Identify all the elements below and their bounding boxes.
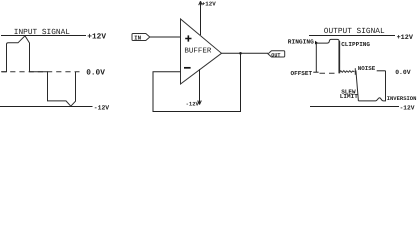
svg-text:-12V: -12V [400, 104, 415, 111]
node feedback junction [239, 52, 242, 55]
svg-text:LIMIT: LIMIT [340, 93, 358, 100]
pin + (non-inverting input) [185, 35, 191, 41]
svg-text:+12V: +12V [397, 34, 414, 42]
node IN port tag [132, 34, 150, 41]
svg-text:-12V: -12V [94, 105, 110, 112]
svg-text:OUTPUT SIGNAL: OUTPUT SIGNAL [324, 27, 385, 36]
svg-text:INVERSION: INVERSION [387, 95, 417, 102]
node OUT port tag [268, 51, 285, 57]
svg-text:OUT: OUT [271, 53, 280, 59]
wire +12V rail (output) [309, 35, 395, 37]
pin - (inverting input) [184, 67, 191, 69]
svg-text:+12V: +12V [202, 0, 216, 7]
wire -12V rail (output) [310, 106, 399, 108]
wire +12V rail (input) [1, 35, 86, 37]
wire IN to op-amp [150, 36, 181, 38]
node ringing arrowhead [315, 41, 318, 45]
wire op-amp output [222, 52, 269, 54]
svg-text:CLIPPING: CLIPPING [341, 41, 370, 48]
wire -12V rail (input) [0, 106, 93, 108]
power -12V supply (op-amp) [198, 69, 202, 104]
op-amp U1 BUFFER [181, 19, 222, 84]
wire feedback loop [153, 53, 241, 111]
svg-text:RINGING: RINGING [288, 38, 314, 45]
wire output negative pulse bottom with inversion bump [358, 71, 385, 101]
wire input waveform [2, 36, 76, 106]
svg-text:0.0V: 0.0V [395, 69, 411, 76]
wire noise squiggle on 0V [339, 71, 354, 73]
wire 0V dashed rail (input) [1, 71, 80, 73]
wire clipping fall edge (bold) [338, 41, 340, 73]
svg-text:OFFSET: OFFSET [291, 70, 313, 77]
svg-text:NOISE: NOISE [358, 65, 376, 72]
svg-text:0.0V: 0.0V [86, 69, 105, 78]
wire offset base tick [313, 71, 318, 73]
svg-text:+12V: +12V [87, 33, 106, 42]
wire noise spike [354, 68, 356, 75]
power +12V supply (op-amp) [199, 1, 203, 35]
wire 0V solid segment after NOISE [377, 70, 386, 72]
svg-text:-12V: -12V [186, 101, 200, 108]
wire 0V dashed rail (output) [320, 72, 339, 74]
wire output positive pulse [316, 39, 339, 73]
wire slew-limited fall [356, 71, 359, 101]
svg-text:IN: IN [134, 34, 141, 41]
svg-text:BUFFER: BUFFER [184, 48, 212, 56]
